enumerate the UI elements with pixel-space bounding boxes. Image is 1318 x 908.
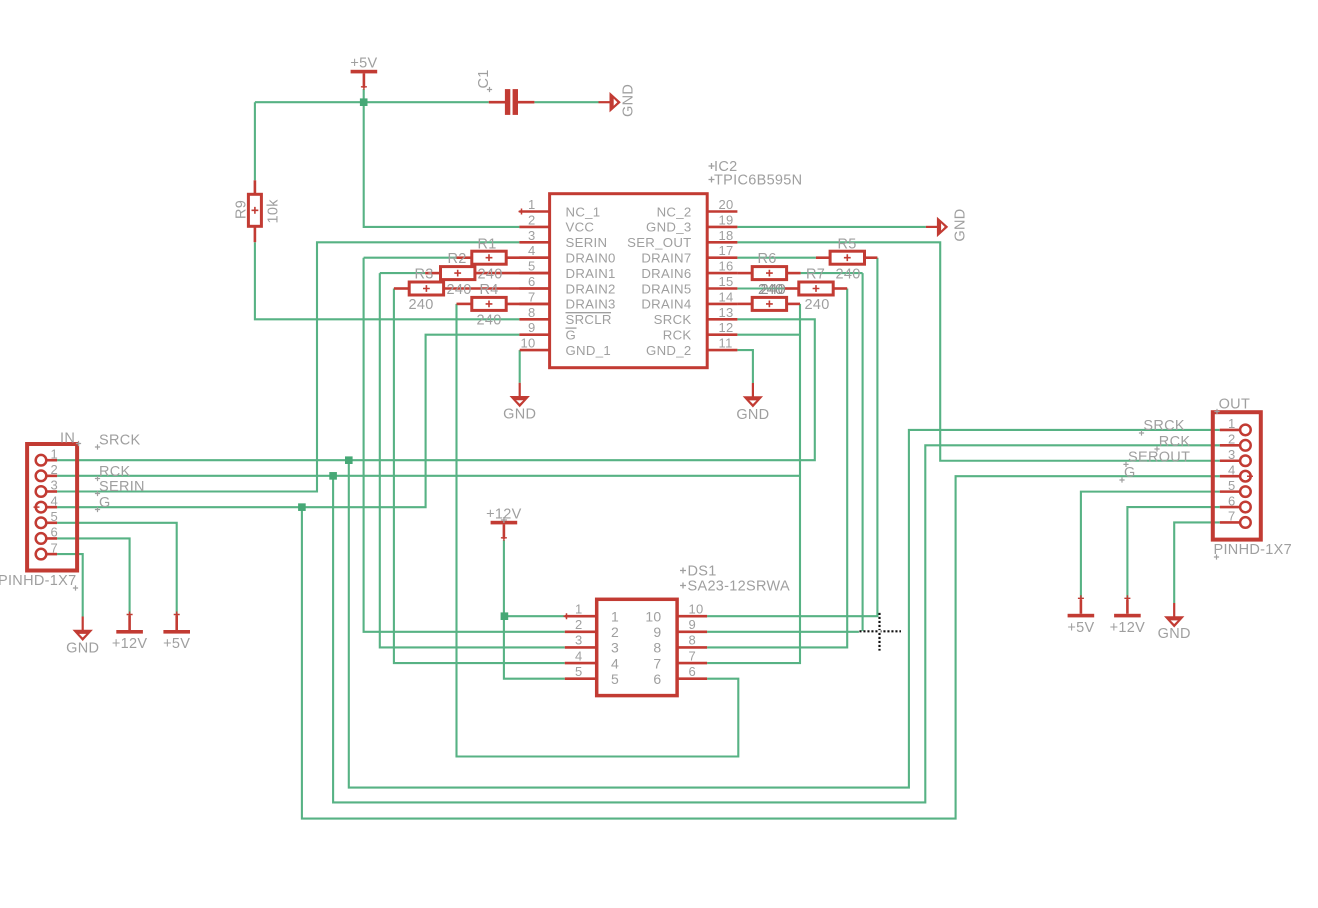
svg-text:PINHD-1X7: PINHD-1X7 (1214, 542, 1292, 558)
resistor R7 lead (785, 287, 799, 290)
wire +5V net: IN pin 5 to supply (57, 523, 177, 616)
wire RCK net: bottom bus to OUT pin 2 (333, 445, 1220, 802)
pin 2 of OUT header (1240, 440, 1251, 451)
wire DRAIN6 net: R6 right lead run (801, 272, 863, 274)
pin 14 of IC2 (DRAIN4) (707, 303, 737, 306)
svg-text:7: 7 (51, 540, 59, 555)
svg-text:16: 16 (719, 259, 734, 274)
wire DRAIN0 net: R1 left lead run (364, 257, 457, 259)
svg-text:14: 14 (719, 289, 734, 304)
resistor R4 (472, 297, 506, 310)
svg-text:240: 240 (447, 282, 472, 298)
wire SERIN net: IC2 pin 3 to IN pin 3 (57, 242, 519, 491)
svg-text:10: 10 (689, 601, 704, 616)
svg-text:8: 8 (689, 633, 697, 648)
svg-text:G: G (566, 328, 577, 343)
svg-text:2: 2 (1228, 432, 1236, 447)
pin 9 of DS1 (677, 631, 707, 634)
svg-text:SERIN: SERIN (99, 479, 145, 495)
svg-text:2: 2 (575, 617, 583, 632)
svg-text:6: 6 (528, 274, 536, 289)
wire GND net: IN pin 7 to ground (57, 554, 83, 616)
pin 5 of IN header (36, 518, 47, 529)
ground GND (IC2 pin 11 GND_2) (752, 383, 754, 397)
node RCK junction (329, 472, 337, 480)
pin 6 of DS1 (677, 677, 707, 680)
svg-text:SRCK: SRCK (1143, 418, 1185, 434)
pin 4 origin cross (OUT) (1247, 473, 1253, 479)
svg-text:RCK: RCK (99, 464, 131, 480)
wire G net: IC2 pin 9 to IN pin 4 (57, 335, 519, 507)
svg-text:DRAIN6: DRAIN6 (641, 266, 691, 281)
svg-text:12: 12 (719, 320, 734, 335)
svg-text:13: 13 (719, 305, 734, 320)
resistor R8 (752, 297, 786, 310)
pin 2 of DS1 (565, 631, 597, 634)
ground GND (IC2 pin 19) (926, 226, 938, 228)
svg-text:240: 240 (761, 282, 787, 298)
power +12V (IN pin 6) (116, 630, 143, 634)
wire DRAIN3 net: R4 around bottom to DS1 pin 6 (457, 304, 739, 757)
svg-text:SRCK: SRCK (654, 312, 692, 327)
pin 19 of IC2 (GND_3) (707, 226, 737, 229)
capacitor C1 (489, 101, 505, 104)
svg-text:NC_2: NC_2 (657, 204, 692, 219)
pin 5 of OUT header (1240, 486, 1251, 497)
pin 6 of IN header (36, 533, 47, 544)
resistor R1 (472, 251, 506, 264)
pin 6 of OUT header (1240, 502, 1251, 513)
svg-text:3: 3 (51, 478, 59, 493)
svg-text:4: 4 (528, 243, 536, 258)
wire +12V net: loop to DS1 pin 5 (504, 616, 565, 678)
power +5V (top rail) (351, 70, 378, 74)
svg-text:SRCLR: SRCLR (566, 312, 612, 327)
connector JP1 PINHD-1X7 IN body (27, 444, 77, 571)
svg-text:15: 15 (719, 274, 734, 289)
pin 3 of IC2 (SERIN) (519, 241, 549, 244)
connector JP2 PINHD-1X7 OUT body (1213, 412, 1261, 539)
overline for SRCLR (566, 312, 612, 314)
label SRCK (IN net) (95, 444, 100, 449)
svg-text:17: 17 (719, 243, 734, 258)
pin 4 of DS1 (565, 662, 597, 665)
svg-text:+12V: +12V (1110, 620, 1145, 636)
svg-text:6: 6 (51, 525, 59, 540)
pin 1 of IN header (36, 455, 47, 466)
svg-text:R7: R7 (806, 266, 825, 282)
svg-text:1: 1 (611, 609, 619, 625)
svg-text:240: 240 (836, 266, 861, 282)
svg-text:R4: R4 (480, 282, 499, 298)
pin 20 of IC2 (NC_2) (707, 210, 737, 213)
resistor R2 lead (425, 272, 440, 275)
svg-text:DRAIN7: DRAIN7 (641, 251, 691, 266)
pin 5 of IC2 (DRAIN1) (519, 272, 549, 275)
svg-text:SA23-12SRWA: SA23-12SRWA (688, 578, 790, 594)
pin 4 of IC2 (DRAIN0) (519, 256, 549, 259)
display DS1 SA23-12SRWA body (597, 599, 677, 695)
svg-text:R5: R5 (838, 237, 857, 253)
wire GND net: IC2 pin 19 to GND arrow (737, 226, 926, 228)
resistor R1 lead (457, 256, 472, 259)
svg-text:5: 5 (528, 259, 536, 274)
svg-text:8: 8 (528, 305, 536, 320)
svg-text:DRAIN2: DRAIN2 (566, 281, 616, 296)
resistor R8 lead (737, 303, 752, 306)
pin 7 of DS1 (677, 662, 707, 665)
svg-text:1: 1 (528, 197, 536, 212)
resistor R3 (409, 282, 443, 295)
svg-text:+12V: +12V (112, 636, 147, 652)
svg-text:5: 5 (611, 671, 619, 687)
svg-text:NC_1: NC_1 (566, 204, 601, 219)
svg-text:9: 9 (653, 624, 661, 640)
svg-text:1: 1 (1228, 416, 1236, 431)
resistor R6 lead (737, 272, 752, 275)
svg-text:18: 18 (719, 228, 734, 243)
label SERIN (IN net) (95, 491, 100, 496)
wire SRCK net: bottom bus to OUT pin 1 (349, 430, 1220, 788)
svg-text:6: 6 (1228, 493, 1236, 508)
svg-text:GND_2: GND_2 (646, 343, 691, 358)
svg-text:5: 5 (51, 509, 59, 524)
pin 10 of IC2 (GND_1) (520, 349, 550, 352)
svg-text:4: 4 (51, 493, 59, 508)
pin 15 of IC2 (DRAIN5) (707, 287, 737, 290)
svg-text:DRAIN4: DRAIN4 (641, 297, 691, 312)
svg-text:11: 11 (719, 336, 733, 351)
power +12V (OUT pin 6) (1114, 614, 1141, 618)
wire VCC net: +5V rail down to IC2 pin 2 (364, 89, 520, 227)
resistor R5 lead (816, 256, 830, 259)
wire C1 right plate to GND (534, 101, 598, 103)
wire DRAIN2 net: R3 to DS1 pin 4 (394, 289, 565, 664)
wire G net: bottom bus to OUT pin 4 (302, 476, 1220, 818)
node G junction (298, 503, 306, 511)
svg-text:9: 9 (528, 320, 536, 335)
pin 13 of IC2 (SRCK) (707, 318, 737, 321)
power +5V (IN pin 5) (163, 630, 190, 634)
svg-text:3: 3 (611, 640, 619, 656)
wire DRAIN5 net: IC2 pin 15 to R7 (737, 287, 784, 289)
svg-text:GND_3: GND_3 (646, 220, 691, 235)
label RCK (IN net) (95, 476, 100, 481)
svg-text:G: G (1124, 465, 1136, 481)
pin 7 of IN header (36, 549, 47, 560)
svg-text:2: 2 (611, 624, 619, 640)
pin 4 of IN header (36, 502, 47, 513)
svg-text:GND: GND (953, 208, 969, 241)
wire RCK net: IC2 pin 12 stub wire (737, 334, 800, 336)
pin 10 of DS1 (677, 615, 707, 618)
pin 3 of IN header (36, 486, 47, 497)
svg-text:RCK: RCK (1159, 434, 1191, 450)
wire SRCLR net: R9 bottom to IC2 pin 8 (255, 242, 520, 319)
svg-text:DRAIN1: DRAIN1 (566, 266, 616, 281)
label DS1 (680, 568, 686, 574)
wire DRAIN1 net: R2 left lead run (380, 272, 425, 274)
wire +12V net: supply down to DS1 pin 1 (504, 540, 565, 616)
svg-text:5: 5 (575, 664, 583, 679)
pin 3 of OUT header (1240, 455, 1251, 466)
pin 1 origin cross (519, 209, 525, 215)
resistor R7 (799, 282, 833, 295)
svg-text:240: 240 (478, 266, 503, 282)
op-amp U-block IC2 TPIC6B595N body (550, 194, 708, 368)
ground GND (IC2 pin 10 GND_1) (519, 383, 521, 397)
wire SEROUT net: IC2 pin 18 to OUT pin 3 (737, 242, 1219, 460)
pin 16 of IC2 (DRAIN6) (707, 272, 737, 275)
wire VCC net: drop to R9 top (254, 102, 256, 180)
svg-text:C1: C1 (476, 69, 492, 88)
wire +5V net: OUT pin 5 to supply (1081, 492, 1220, 599)
ground GND (OUT pin 7) (1173, 603, 1175, 617)
pin 7 of OUT header (1240, 517, 1251, 528)
resistor R5 (830, 251, 864, 264)
pin 5 of DS1 (565, 677, 597, 680)
svg-text:OUT: OUT (1219, 397, 1251, 413)
svg-text:4: 4 (575, 648, 583, 663)
svg-text:GND: GND (736, 407, 769, 423)
svg-text:R1: R1 (478, 237, 497, 253)
svg-text:+5V: +5V (350, 55, 377, 71)
svg-text:240: 240 (409, 297, 434, 313)
svg-text:240: 240 (805, 297, 830, 313)
svg-text:8: 8 (653, 640, 661, 656)
svg-text:RCK: RCK (663, 328, 692, 343)
svg-text:G: G (99, 495, 111, 511)
wire DRAIN6 net: down to DS1 pin 9 (862, 273, 864, 631)
wire VCC net: horizontal +5V rail to R9 and C1 (255, 101, 489, 103)
svg-text:3: 3 (575, 633, 583, 648)
wire DRAIN4 net: R8 down to DS1 pin 7 (707, 304, 800, 663)
wire DRAIN6 net: DS1 pin 9 wire (707, 631, 859, 633)
label G (IN net) (95, 507, 100, 512)
svg-text:10: 10 (645, 609, 661, 625)
pin 4 origin cross (IN) (34, 504, 40, 510)
label SA23-12SRWA (680, 583, 686, 589)
svg-text:5: 5 (1228, 478, 1236, 493)
svg-text:TPIC6B595N: TPIC6B595N (714, 173, 802, 189)
svg-text:GND_1: GND_1 (566, 343, 611, 358)
pin 1 of OUT header (1240, 425, 1251, 436)
pin 2 of IN header (36, 471, 47, 482)
svg-text:GND: GND (66, 641, 99, 657)
svg-text:DS1: DS1 (688, 563, 717, 579)
pin 9 of IC2 (G) (519, 333, 549, 336)
wire RCK net: IN pin 2 rightwards (57, 475, 800, 477)
node +12V junction at DS1 pin 1 (501, 612, 509, 620)
resistor R4 lead (457, 303, 472, 306)
svg-text:R2: R2 (448, 251, 467, 267)
pin 1 of IC2 (NC_1) (519, 210, 549, 213)
svg-text:240: 240 (477, 313, 502, 329)
svg-text:R3: R3 (415, 266, 434, 282)
wire +12V net: OUT pin 6 to supply (1127, 507, 1219, 598)
svg-text:SRCK: SRCK (99, 432, 141, 448)
pin 7 of IC2 (DRAIN3) (519, 303, 549, 306)
wire DRAIN0 net: down to DS1 pin 2 (364, 258, 565, 632)
wire DRAIN7 net: IC2 pin 17 to R5 (737, 257, 816, 259)
svg-text:19: 19 (719, 212, 734, 227)
svg-text:+5V: +5V (163, 636, 190, 652)
node SRCK junction (345, 456, 353, 464)
wire SRCK net: IN pin 1 across to IC2 pin 13 (57, 319, 815, 460)
svg-text:DRAIN0: DRAIN0 (566, 251, 616, 266)
ground GND (after C1) (599, 101, 611, 103)
svg-text:2: 2 (51, 462, 59, 477)
pin 4 of OUT header (1240, 471, 1251, 482)
svg-text:6: 6 (653, 671, 661, 687)
label IC2 (709, 163, 715, 169)
wire GND_2 drop from IC2 pin 11 (737, 350, 753, 383)
pin 1 of DS1 (565, 615, 597, 618)
svg-text:3: 3 (1228, 447, 1236, 462)
svg-text:7: 7 (1228, 509, 1236, 524)
wire DRAIN5 net: R7 down to DS1 pin 8 (707, 289, 847, 648)
pin 8 of IC2 (SRCLR) (519, 318, 549, 321)
wire +12V net: IN pin 6 to supply (57, 538, 130, 615)
pin 6 of IC2 (DRAIN2) (519, 287, 549, 290)
svg-text:SER_OUT: SER_OUT (627, 235, 691, 250)
node +5V rail junction (360, 98, 368, 106)
svg-text:10: 10 (520, 336, 535, 351)
ground GND (IN pin 7) (82, 617, 84, 631)
pin 12 of IC2 (RCK) (707, 333, 737, 336)
svg-text:4: 4 (1228, 462, 1236, 477)
svg-text:1: 1 (51, 446, 59, 461)
cursor crosshair (859, 630, 901, 632)
resistor R9 (254, 180, 257, 194)
wire GND net: OUT pin 7 to ground (1174, 522, 1220, 603)
svg-text:GND: GND (503, 407, 536, 423)
pin 11 of IC2 (GND_2) (707, 349, 737, 352)
svg-text:SEROUT: SEROUT (1128, 449, 1190, 465)
svg-text:7: 7 (689, 648, 697, 663)
svg-text:DRAIN5: DRAIN5 (641, 281, 691, 296)
svg-text:2: 2 (528, 212, 536, 227)
svg-text:7: 7 (653, 655, 661, 671)
svg-text:VCC: VCC (566, 220, 595, 235)
pin 17 of IC2 (DRAIN7) (707, 256, 737, 259)
svg-text:10k: 10k (266, 199, 282, 224)
origin cross +12V (501, 517, 507, 523)
svg-text:DRAIN3: DRAIN3 (566, 297, 616, 312)
svg-text:PINHD-1X7: PINHD-1X7 (0, 573, 76, 589)
svg-text:SERIN: SERIN (566, 235, 608, 250)
svg-text:6: 6 (689, 664, 697, 679)
pin 1 origin cross (DS1) (564, 613, 570, 619)
resistor R3 lead (394, 287, 409, 290)
overline for G (566, 327, 577, 329)
power +12V (DS1 anode) (491, 521, 518, 525)
svg-text:GND: GND (621, 84, 637, 117)
svg-text:4: 4 (611, 655, 619, 671)
resistor R6 (752, 267, 786, 280)
pin 18 of IC2 (SER_OUT) (707, 241, 737, 244)
resistor R2 (441, 267, 475, 280)
pin 8 of DS1 (677, 646, 707, 649)
wire GND_1 drop from IC2 pin 10 (519, 350, 521, 383)
svg-text:R9: R9 (234, 200, 250, 219)
svg-text:7: 7 (528, 289, 536, 304)
svg-text:R6: R6 (758, 251, 777, 267)
pin 2 of IC2 (VCC) (519, 226, 549, 229)
svg-text:3: 3 (528, 228, 536, 243)
svg-text:GND: GND (1158, 626, 1191, 642)
power +5V (OUT pin 5) (1068, 614, 1095, 618)
label TPIC6B595N (709, 177, 715, 183)
wire DRAIN1 net: down to DS1 pin 3 (380, 273, 565, 647)
svg-text:+5V: +5V (1067, 620, 1094, 636)
pin 3 of DS1 (565, 646, 597, 649)
svg-text:20: 20 (719, 197, 734, 212)
svg-text:1: 1 (575, 601, 583, 616)
svg-text:IN: IN (60, 431, 75, 447)
svg-text:9: 9 (689, 617, 697, 632)
wire DRAIN7 net: R5 down to DS1 pin 10 (707, 258, 877, 617)
